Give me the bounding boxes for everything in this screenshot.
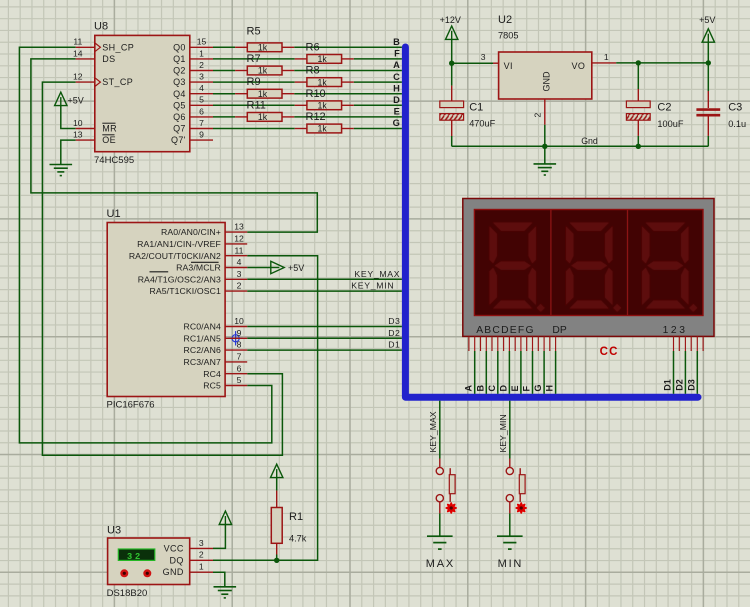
svg-text:C2: C2 <box>657 102 671 114</box>
wire display segment F to bus <box>532 351 534 394</box>
svg-text:1k: 1k <box>317 124 327 134</box>
svg-text:32: 32 <box>127 552 143 562</box>
wire to ground symbol <box>544 146 546 164</box>
svg-text:ABCDEFG: ABCDEFG <box>476 325 535 336</box>
svg-text:C: C <box>393 72 400 82</box>
wire U3 VCC to +5V <box>213 525 225 549</box>
svg-text:U1: U1 <box>107 208 121 220</box>
svg-text:R6: R6 <box>306 41 320 53</box>
wire C1 bottom to ground rail <box>451 136 453 146</box>
R11 left lead <box>235 116 247 118</box>
svg-text:5: 5 <box>237 375 242 385</box>
resistor R5 1k <box>247 43 282 53</box>
svg-text:D: D <box>393 95 400 105</box>
svg-text:RA4/T1G/OSC2/AN3: RA4/T1G/OSC2/AN3 <box>138 274 221 284</box>
svg-text:2: 2 <box>199 60 204 70</box>
junction R1 / DQ <box>274 558 279 563</box>
svg-text:Q4: Q4 <box>173 89 186 99</box>
wire R11 to bus <box>294 116 402 118</box>
svg-text:R10: R10 <box>306 88 326 100</box>
svg-text:1: 1 <box>604 52 609 62</box>
wire C3 bottom to ground rail <box>707 136 709 146</box>
svg-text:D1: D1 <box>663 379 673 391</box>
resistor R1 4.7k (vertical) <box>271 508 282 544</box>
svg-text:U3: U3 <box>107 525 121 537</box>
svg-text:F: F <box>522 386 532 392</box>
wire U8 output to R11 <box>213 116 235 118</box>
power symbol +5V (supply) <box>702 29 714 42</box>
R5 right lead <box>282 46 294 48</box>
svg-text:8: 8 <box>237 340 242 350</box>
svg-text:R9: R9 <box>247 76 261 88</box>
svg-text:KEY_MAX: KEY_MAX <box>354 269 400 279</box>
svg-text:D3: D3 <box>686 379 696 391</box>
svg-text:RA3/MCLR: RA3/MCLR <box>176 263 221 273</box>
svg-text:E: E <box>394 107 400 117</box>
svg-text:MR: MR <box>102 124 117 134</box>
junction VO / C2 <box>636 60 641 65</box>
svg-text:9: 9 <box>237 328 242 338</box>
svg-text:13: 13 <box>73 130 83 140</box>
wire U8 output to R12 <box>213 128 295 130</box>
actuate star marker of MIN <box>516 503 526 513</box>
svg-text:Q7: Q7 <box>173 124 186 134</box>
wire net ST_CP: U8 pin 12 to U1 RC4 pin 6 <box>42 82 282 455</box>
svg-text:1k: 1k <box>258 66 268 76</box>
svg-text:RC5: RC5 <box>203 381 221 391</box>
svg-text:RA0/AN0/CIN+: RA0/AN0/CIN+ <box>161 227 221 237</box>
U2 pin 1 stub <box>592 62 616 64</box>
svg-text:+5V: +5V <box>288 263 304 273</box>
svg-text:123: 123 <box>663 325 688 336</box>
resistor R12 1k <box>307 124 342 134</box>
svg-text:470uF: 470uF <box>469 118 495 128</box>
resistor R10 1k <box>307 101 342 111</box>
svg-text:G: G <box>533 384 543 391</box>
svg-text:DQ: DQ <box>169 555 183 565</box>
svg-text:D2: D2 <box>388 328 400 338</box>
ground at button MIN <box>497 536 523 549</box>
wire U8 output to R9 <box>213 93 235 95</box>
wire C2 bottom to ground rail <box>637 136 639 146</box>
wire net KEY_MIN from U1 pin 2 to bus <box>247 290 402 292</box>
svg-text:Q6: Q6 <box>173 112 186 122</box>
R6 left lead <box>295 58 307 60</box>
U2 pin 2 stub <box>544 99 546 125</box>
U2 pin 3 stub <box>493 62 499 64</box>
svg-text:KEY_MIN: KEY_MIN <box>498 414 508 452</box>
svg-text:1k: 1k <box>317 77 327 87</box>
wire net DQ: U1 RA2 pin 11 to DS18B20 DQ / R1 <box>213 256 318 561</box>
power symbol +5V at R1 <box>271 464 283 477</box>
C2 top lead <box>637 89 639 101</box>
svg-text:2: 2 <box>199 550 204 560</box>
ground symbol power section <box>534 164 557 175</box>
R12 right lead <box>342 128 354 130</box>
power symbol +5V at U8 MR <box>55 92 67 105</box>
R8 right lead <box>342 81 354 83</box>
wire display segment A to bus <box>474 351 476 394</box>
wire display segment E to bus <box>520 351 522 394</box>
R12 left lead <box>295 128 307 130</box>
svg-text:Q1: Q1 <box>173 54 186 64</box>
svg-text:4.7k: 4.7k <box>289 534 307 544</box>
svg-text:3: 3 <box>481 52 486 62</box>
svg-text:12: 12 <box>73 72 83 82</box>
svg-text:R5: R5 <box>247 26 261 38</box>
svg-text:A: A <box>393 60 400 70</box>
svg-text:13: 13 <box>234 222 244 232</box>
svg-text:1k: 1k <box>317 101 327 111</box>
svg-text:10: 10 <box>73 118 83 128</box>
wire bus to button MAX <box>439 401 441 459</box>
svg-text:100uF: 100uF <box>657 119 683 129</box>
svg-text:Q0: Q0 <box>173 42 186 52</box>
wire net KEY_MAX from U1 pin 3 to bus <box>247 278 402 280</box>
svg-text:7805: 7805 <box>498 31 518 41</box>
wire U8 MR pin 10 to +5V <box>61 106 76 129</box>
junction VO / C3 / +5V <box>706 60 711 65</box>
svg-text:1k: 1k <box>317 54 327 64</box>
svg-text:3: 3 <box>237 269 242 279</box>
svg-text:U2: U2 <box>498 14 512 26</box>
svg-text:DS18B20: DS18B20 <box>107 588 148 599</box>
wire display segment G to bus <box>543 351 545 394</box>
svg-text:Q5: Q5 <box>173 100 186 110</box>
svg-text:3: 3 <box>199 538 204 548</box>
svg-text:1k: 1k <box>258 112 268 122</box>
svg-text:DP: DP <box>552 325 566 336</box>
svg-text:VO: VO <box>571 61 585 71</box>
display segment pins (stubs) <box>469 336 703 351</box>
svg-text:11: 11 <box>73 37 82 47</box>
R6 right lead <box>342 58 354 60</box>
svg-text:2: 2 <box>237 281 242 291</box>
wire R5 to bus <box>294 46 402 48</box>
svg-text:+5V: +5V <box>68 96 84 106</box>
svg-text:H: H <box>545 385 555 392</box>
svg-text:0.1u: 0.1u <box>728 119 746 129</box>
wire display common D1 to bus <box>673 351 675 394</box>
svg-text:RC4: RC4 <box>203 369 221 379</box>
wire U1 RA3 pin 4 to +5V <box>247 267 271 269</box>
svg-text:Q2: Q2 <box>173 66 186 76</box>
wire to C1 top <box>451 63 453 85</box>
svg-text:GND: GND <box>163 567 184 577</box>
C1 bottom lead <box>451 120 453 136</box>
svg-text:VI: VI <box>504 61 513 71</box>
wire U8 output to R5 <box>213 46 235 48</box>
svg-text:74HC595: 74HC595 <box>94 155 134 166</box>
svg-text:VCC: VCC <box>164 543 184 553</box>
svg-text:D1: D1 <box>388 340 400 350</box>
svg-text:D3: D3 <box>388 316 400 326</box>
svg-text:14: 14 <box>73 48 83 58</box>
regulator U2 7805 body <box>498 14 592 99</box>
wire to C3 top <box>707 63 709 91</box>
power symbol +12V <box>446 26 458 39</box>
U3 pins 3,2,1 <box>190 547 213 549</box>
svg-text:C3: C3 <box>728 102 742 114</box>
resistor R7 1k <box>247 66 282 76</box>
svg-text:H: H <box>393 83 400 93</box>
C3 bottom lead <box>707 116 709 135</box>
svg-text:RC0/AN4: RC0/AN4 <box>183 322 220 332</box>
wire net SH_CP: U8 pin 11 to U1 RC5 pin 5 <box>19 47 271 443</box>
svg-text:12: 12 <box>234 234 244 244</box>
wire display common D3 to bus <box>696 351 698 394</box>
junction ground rail / C2 <box>636 144 641 149</box>
ground at U3 <box>214 587 237 598</box>
svg-text:4: 4 <box>199 83 204 93</box>
R7 left lead <box>235 70 247 72</box>
power symbol +5V at U3 <box>219 511 231 524</box>
wire +12V to VI node <box>451 39 453 63</box>
svg-text:9: 9 <box>199 130 204 140</box>
U1 right pins with numbers <box>225 231 247 233</box>
wire R9 to bus <box>294 93 402 95</box>
svg-text:10: 10 <box>234 316 244 326</box>
wire R7 to bus <box>294 70 402 72</box>
temperature sensor U3 DS18B20 body <box>107 525 190 600</box>
wire display segment C to bus <box>497 351 499 394</box>
junction ground rail / U2 GND <box>542 144 547 149</box>
svg-text:F: F <box>394 49 400 59</box>
origin marker (blue crosshair) on U1 pin 9 wire <box>228 331 242 345</box>
wire display segment D to bus <box>508 351 510 394</box>
wire net DS: U8 pin 14 to U1 RA0 pin 13 <box>31 59 317 232</box>
3-digit 7-segment display body <box>463 199 714 337</box>
svg-text:RA1/AN1/CIN-/VREF: RA1/AN1/CIN-/VREF <box>137 239 221 249</box>
7-segment digit 2 (segments off) <box>566 222 622 312</box>
svg-text:+5V: +5V <box>699 15 715 25</box>
wire U8 output to R10 <box>213 104 295 106</box>
wire +5V symbol to node <box>707 42 709 63</box>
svg-text:+12V: +12V <box>440 15 461 25</box>
R1 bottom lead <box>276 543 278 554</box>
svg-text:1k: 1k <box>258 89 268 99</box>
wire net D1 from U1 pin 8 to bus <box>247 349 402 351</box>
R1 top lead <box>276 491 278 508</box>
svg-text:PIC16F676: PIC16F676 <box>107 400 155 411</box>
R10 right lead <box>342 104 354 106</box>
wire display segment H to bus <box>555 351 557 394</box>
wire U8 output to R7 <box>213 70 235 72</box>
svg-text:B: B <box>475 385 485 392</box>
wire to C2 top <box>637 63 639 89</box>
wire button MAX to ground <box>439 513 441 536</box>
wire bus to button MIN <box>509 401 511 459</box>
R7 right lead <box>282 70 294 72</box>
button MAX top pin <box>439 459 441 468</box>
wire U8 output to R6 <box>213 58 295 60</box>
svg-text:U8: U8 <box>94 20 108 32</box>
resistor R6 1k <box>307 54 342 64</box>
svg-text:A: A <box>464 385 474 392</box>
resistor R11 1k <box>247 112 282 122</box>
resistor R9 1k <box>247 89 282 99</box>
IC U1 PIC16F676 body <box>107 208 226 411</box>
wire U2 GND pin to ground rail <box>544 125 546 147</box>
R11 right lead <box>282 116 294 118</box>
button MIN bottom pin <box>509 502 511 514</box>
ground at button MAX <box>427 536 453 549</box>
button MAX bottom pin <box>439 502 441 514</box>
U8 left pins 11,14,12,10,13 <box>76 46 95 48</box>
svg-text:1: 1 <box>199 562 204 572</box>
R10 left lead <box>295 104 307 106</box>
svg-text:G: G <box>393 118 400 128</box>
svg-text:11: 11 <box>235 245 244 255</box>
wire R12 to bus <box>354 128 402 130</box>
svg-text:MAX: MAX <box>426 558 455 570</box>
bus (blue): vertical from resistor network down, corner, horizontal to display pins <box>405 47 698 397</box>
wire R6 to bus <box>354 58 402 60</box>
wire U8 output to R8 <box>213 81 295 83</box>
junction +12V / C1 <box>449 61 454 66</box>
svg-text:R11: R11 <box>247 99 266 111</box>
wire U2 VO to +5V node <box>616 62 708 64</box>
svg-text:E: E <box>510 385 520 391</box>
svg-text:ST_CP: ST_CP <box>102 77 133 87</box>
wire U3 GND to ground <box>213 572 225 587</box>
push button MIN <box>506 467 525 502</box>
C3 top lead <box>707 91 709 108</box>
svg-text:MIN: MIN <box>498 558 524 570</box>
svg-text:7: 7 <box>199 118 204 128</box>
C2 bottom lead <box>637 120 639 136</box>
svg-text:GND: GND <box>541 71 551 92</box>
wire R8 to bus <box>354 81 402 83</box>
svg-text:6: 6 <box>199 106 204 116</box>
svg-text:RA5/T1CKI/OSC1: RA5/T1CKI/OSC1 <box>149 286 220 296</box>
wire R1 bottom to DQ net <box>276 555 278 561</box>
wire ground rail Gnd <box>452 145 709 147</box>
wire R10 to bus <box>354 104 402 106</box>
svg-text:Q3: Q3 <box>173 77 186 87</box>
svg-text:RC3/AN7: RC3/AN7 <box>183 357 220 367</box>
svg-text:3: 3 <box>199 72 204 82</box>
svg-text:1: 1 <box>199 48 204 58</box>
ground at U8 OE <box>50 165 73 176</box>
IC U8 74HC595 body <box>94 20 190 166</box>
svg-text:R7: R7 <box>247 53 261 65</box>
U8 right pins 15,1,2,3,4,5,6,7,9 <box>190 46 213 48</box>
svg-text:R1: R1 <box>289 511 303 523</box>
wire button MIN to ground <box>509 513 511 536</box>
actuate star marker of MAX <box>446 503 456 513</box>
svg-text:KEY_MIN: KEY_MIN <box>351 281 394 291</box>
7-segment digit 1 (segments off) <box>489 222 545 312</box>
7-segment digit 3 (segments off) <box>642 222 698 312</box>
R8 left lead <box>295 81 307 83</box>
R9 left lead <box>235 93 247 95</box>
wire display segment B to bus <box>485 351 487 394</box>
svg-text:RC2/AN6: RC2/AN6 <box>183 345 220 355</box>
wire U8 OE pin 13 to ground <box>61 140 76 164</box>
svg-text:B: B <box>393 37 400 47</box>
wire VI node to U2 pin 3 <box>452 62 493 64</box>
svg-text:D: D <box>498 385 508 392</box>
svg-text:2: 2 <box>532 113 542 118</box>
wire display common D2 to bus <box>684 351 686 394</box>
svg-text:C: C <box>487 385 497 392</box>
wire net D2 from U1 pin 9 to bus <box>247 337 402 339</box>
button MIN top pin <box>509 459 511 468</box>
svg-text:6: 6 <box>237 363 242 373</box>
svg-text:RA2/COUT/T0CKI/AN2: RA2/COUT/T0CKI/AN2 <box>129 251 221 261</box>
svg-text:R8: R8 <box>306 65 320 77</box>
svg-text:Gnd: Gnd <box>581 136 598 146</box>
power symbol +5V at U1 RA3 <box>271 261 284 273</box>
resistor R8 1k <box>307 77 342 87</box>
svg-text:CC: CC <box>600 346 619 358</box>
svg-text:SH_CP: SH_CP <box>102 42 134 52</box>
svg-text:4: 4 <box>237 257 242 267</box>
svg-text:C1: C1 <box>469 102 483 114</box>
svg-text:KEY_MAX: KEY_MAX <box>428 411 438 452</box>
svg-text:1k: 1k <box>258 43 268 53</box>
svg-text:RC1/AN5: RC1/AN5 <box>183 333 220 343</box>
svg-text:DS: DS <box>102 54 115 64</box>
svg-text:15: 15 <box>197 37 207 47</box>
svg-text:5: 5 <box>199 95 204 105</box>
R9 right lead <box>282 93 294 95</box>
push button MAX <box>436 467 455 502</box>
svg-text:D2: D2 <box>674 379 684 391</box>
R5 left lead <box>235 46 247 48</box>
svg-text:7: 7 <box>237 352 242 362</box>
wire +5V to R1 <box>276 478 278 491</box>
svg-text:OE: OE <box>102 135 116 145</box>
svg-text:R12: R12 <box>306 111 326 123</box>
svg-text:Q7': Q7' <box>171 135 186 145</box>
C1 top lead <box>451 86 453 101</box>
wire net D3 from U1 pin 10 to bus <box>247 326 402 328</box>
